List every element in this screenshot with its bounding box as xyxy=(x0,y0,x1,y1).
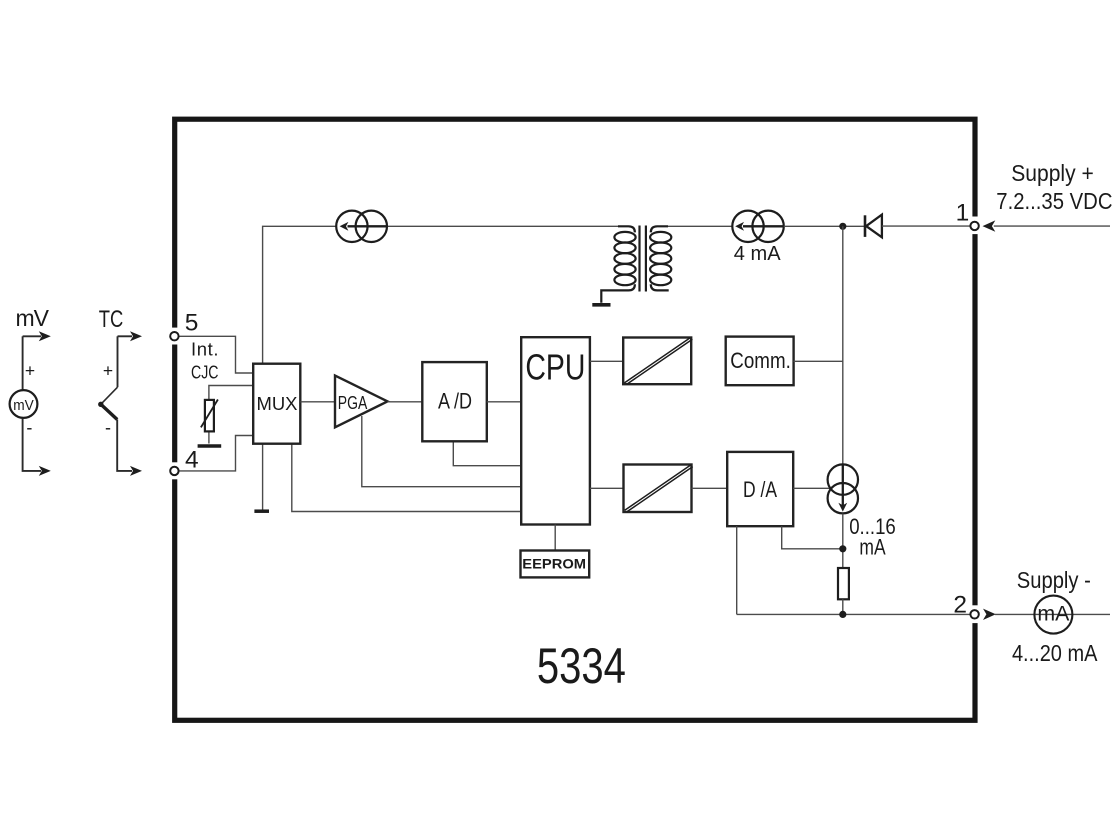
source mV bottom arrow xyxy=(39,466,51,476)
resistor R1 lead xyxy=(842,599,844,614)
svg-text:mA: mA xyxy=(1037,603,1069,626)
EEPROM block xyxy=(521,551,590,578)
wire D/A bottom right to rail xyxy=(782,526,843,549)
junction dot CS3 output xyxy=(839,545,846,552)
thermocouple TC lead bottom xyxy=(117,420,132,471)
svg-text:Supply -: Supply - xyxy=(1017,567,1091,593)
svg-text:CPU: CPU xyxy=(525,347,585,388)
supply plus arrow xyxy=(983,220,996,231)
terminal 1 xyxy=(970,222,978,230)
D/A block xyxy=(727,452,793,526)
CPU block xyxy=(521,337,590,524)
current source CS1 circles xyxy=(336,211,367,242)
svg-text:Int.: Int. xyxy=(191,338,219,359)
svg-text:+: + xyxy=(103,361,113,381)
wire PGA to A/D xyxy=(388,401,423,403)
wire MUX bottom to CPU xyxy=(292,444,521,512)
svg-text:-: - xyxy=(105,418,111,438)
diode D1 triangle xyxy=(866,215,882,238)
source mV circle xyxy=(10,390,38,418)
thermocouple TC junction upper diagonal xyxy=(101,387,118,404)
enclosure frame 5334 xyxy=(170,119,980,720)
svg-text:D /A: D /A xyxy=(743,477,777,502)
wire CS2 to diode xyxy=(784,225,864,227)
thermocouple TC top wire xyxy=(118,335,133,337)
transformer core xyxy=(640,226,646,292)
transformer secondary coil xyxy=(650,226,671,290)
svg-text:CJC: CJC xyxy=(191,362,219,383)
wire top rail middle xyxy=(387,225,618,227)
right rail vertical lower xyxy=(842,514,844,568)
svg-text:mV: mV xyxy=(13,397,34,414)
svg-text:mA: mA xyxy=(859,534,885,559)
svg-text:Supply +: Supply + xyxy=(1011,160,1094,186)
isolator 2 diagonal xyxy=(625,465,693,512)
thermocouple TC junction dot xyxy=(98,402,103,407)
wire CPU to isolator 1 xyxy=(590,360,623,362)
wire D/A to current source xyxy=(793,487,829,489)
A/D block xyxy=(422,362,487,441)
thermocouple TC junction lower diagonal xyxy=(101,404,117,419)
wire PGA bottom to CPU xyxy=(362,416,521,487)
thermocouple TC top arrow xyxy=(130,331,142,341)
svg-text:1: 1 xyxy=(956,200,970,227)
source mV top wire xyxy=(23,335,41,337)
wire A/D to CPU xyxy=(487,401,521,403)
wire top rail left / MUX top lead xyxy=(263,226,337,363)
isolator 1 block xyxy=(623,338,691,385)
terminal 4 xyxy=(170,467,178,475)
wire isolator 2 to D/A xyxy=(692,487,728,489)
MUX ground xyxy=(254,509,269,513)
terminal 2 xyxy=(970,610,978,618)
thermocouple TC lead top xyxy=(117,336,119,387)
wire Comm. to rail xyxy=(793,360,842,362)
svg-text:PGA: PGA xyxy=(338,392,368,413)
supply plus wire xyxy=(994,225,1110,227)
svg-text:mV: mV xyxy=(16,305,50,331)
isolator 1 diagonal xyxy=(624,338,692,385)
supply minus arrow xyxy=(983,609,996,620)
svg-text:-: - xyxy=(26,418,32,438)
CJC sensor RT body xyxy=(205,400,214,432)
wire D/A bottom left to output line xyxy=(736,526,738,614)
svg-text:2: 2 xyxy=(953,592,967,619)
PGA amplifier xyxy=(335,376,388,428)
svg-text:5334: 5334 xyxy=(537,637,626,694)
terminal 5 xyxy=(170,332,178,340)
svg-text:5: 5 xyxy=(185,310,199,337)
svg-text:+: + xyxy=(25,361,35,381)
CJC sensor diagonal xyxy=(201,400,218,428)
thermocouple TC bottom arrow xyxy=(130,466,142,476)
junction dot output xyxy=(839,611,846,618)
svg-text:EEPROM: EEPROM xyxy=(522,556,586,572)
resistor R1 xyxy=(838,568,849,599)
current source CS2 arrow xyxy=(743,225,784,227)
diode D1 cathode bar xyxy=(864,215,867,237)
wire CPU to EEPROM xyxy=(554,525,556,551)
source mV top arrow xyxy=(39,331,51,341)
svg-text:MUX: MUX xyxy=(257,393,298,414)
wire MUX to PGA xyxy=(300,401,335,403)
junction dot top rail xyxy=(839,223,846,230)
output line to terminal 2 xyxy=(737,613,971,615)
wire diode to terminal 1 xyxy=(882,225,970,227)
svg-text:4: 4 xyxy=(185,447,199,474)
current source CS2 circles xyxy=(732,211,763,242)
svg-text:A /D: A /D xyxy=(438,389,472,414)
source mV lead bottom xyxy=(23,418,41,471)
svg-text:4 mA: 4 mA xyxy=(734,242,781,265)
current source CS1 arrow xyxy=(348,225,387,227)
CJC sensor lead bottom xyxy=(208,431,210,443)
svg-text:7.2...35 VDC: 7.2...35 VDC xyxy=(996,188,1112,214)
right rail vertical upper xyxy=(842,226,844,464)
MUX ground leg xyxy=(262,444,264,510)
svg-text:TC: TC xyxy=(99,306,124,333)
wire top rail right xyxy=(668,225,732,227)
CJC ground xyxy=(198,444,222,447)
wire CJC sensor to MUX xyxy=(209,386,253,400)
current source CS3 circles xyxy=(828,464,858,494)
MUX block xyxy=(253,364,300,444)
svg-text:4...20 mA: 4...20 mA xyxy=(1012,640,1098,666)
svg-text:Comm.: Comm. xyxy=(730,348,791,373)
transformer ground xyxy=(592,303,610,307)
Comm. block xyxy=(726,337,794,386)
transformer T1 primary coil xyxy=(601,226,635,302)
wire CPU to isolator 2 xyxy=(590,487,624,489)
supply minus wire to meter xyxy=(995,613,1110,615)
wire terminal 5 to MUX xyxy=(179,336,253,373)
current source CS3 arrow xyxy=(842,466,844,507)
source mV lead top xyxy=(22,336,24,389)
wire A/D bottom to CPU xyxy=(453,441,521,465)
wire terminal 4 to MUX xyxy=(179,436,253,471)
isolator 2 block xyxy=(624,465,692,513)
meter mA circle xyxy=(1034,596,1072,634)
